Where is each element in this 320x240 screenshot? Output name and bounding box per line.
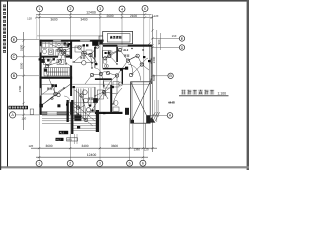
svg-text:AL2: AL2 bbox=[123, 49, 129, 52]
grid line axis 5 bbox=[129, 118, 131, 160]
axis bubble A bbox=[10, 112, 16, 118]
kitchen extra hatch lines bbox=[42, 42, 70, 56]
dark block at y68 wall end bbox=[125, 67, 128, 70]
big door arc living room bbox=[128, 64, 141, 81]
distribution box symbol bbox=[92, 41, 98, 45]
svg-text:3: 3 bbox=[99, 7, 101, 11]
lamp symbols bbox=[45, 45, 143, 97]
left dimension line bbox=[23, 32, 25, 130]
leader to bubble D right bbox=[152, 47, 180, 49]
drawing frame left line bbox=[7, 1, 8, 166]
bedroom dark socket box bbox=[39, 104, 43, 108]
entry circle extra bbox=[76, 106, 79, 109]
exterior top wall left section bbox=[40, 40, 104, 42]
window in bottom wall bbox=[47, 112, 57, 115]
svg-text:3400: 3400 bbox=[81, 144, 88, 148]
staircase treads bbox=[48, 68, 69, 76]
bedroom dresser dots bbox=[51, 84, 53, 87]
right dimension line a bbox=[152, 14, 154, 152]
svg-text:AP1: AP1 bbox=[67, 139, 72, 142]
top dimension ticks bbox=[35, 13, 153, 18]
hall floor line 2 bbox=[72, 86, 95, 88]
sheet top border bbox=[0, 0, 249, 2]
entry outer wall right bbox=[96, 110, 99, 132]
sheet bottom border bbox=[0, 166, 249, 168]
axis bubble 5 bbox=[127, 160, 133, 166]
left binding strip stamp blocks bbox=[3, 5, 6, 53]
interior wall vertical x95 upper bbox=[94, 47, 96, 58]
bay porch outer rect bbox=[103, 31, 133, 43]
window in left wall lower bbox=[40, 88, 42, 96]
axis bubble 6 bbox=[142, 6, 148, 12]
leader to bubble E right bbox=[152, 38, 180, 40]
bottom segment dimension line bbox=[31, 147, 157, 149]
entry terrace step lines bbox=[42, 116, 99, 131]
title underline bbox=[179, 94, 229, 97]
grid line axis 2 bbox=[69, 12, 71, 161]
axis bubble 2 bbox=[67, 160, 73, 166]
svg-text:120: 120 bbox=[144, 148, 149, 152]
exterior bottom wall right section bbox=[95, 112, 123, 114]
wire runs bbox=[46, 43, 149, 120]
interior wall vertical x111 bbox=[110, 85, 112, 113]
bath extra dark marks bbox=[64, 43, 67, 45]
entry diagonal wire 1 bbox=[73, 103, 95, 121]
svg-text:3400: 3400 bbox=[80, 18, 87, 22]
svg-text:3600: 3600 bbox=[111, 144, 118, 148]
axis bubble B bbox=[11, 73, 17, 79]
bedroom bed bottom-left bbox=[42, 85, 55, 95]
svg-text:1: 1 bbox=[38, 162, 40, 166]
interior wall below stairs bbox=[40, 77, 73, 79]
staircase arrow bbox=[46, 71, 68, 73]
bottom overall dimension line bbox=[36, 156, 148, 158]
svg-text:C: C bbox=[13, 55, 16, 59]
axis bubble E bbox=[179, 36, 184, 41]
svg-text:1360: 1360 bbox=[134, 148, 141, 152]
terrace diagonal 1 bbox=[131, 82, 151, 123]
exterior bottom wall left section line1 bbox=[40, 112, 70, 113]
sheet right border bbox=[247, 0, 249, 170]
dim extension below entry bbox=[69, 134, 71, 146]
right dimension ticks bbox=[151, 16, 153, 149]
right dimension line d bbox=[157, 100, 159, 117]
interior wall vertical x122 segment bbox=[121, 69, 123, 84]
bay porch inner rect bbox=[107, 34, 130, 42]
dining table mid room bbox=[75, 46, 92, 54]
axis bubble 4 bbox=[119, 6, 125, 12]
switch label box AL2 bbox=[56, 138, 64, 141]
switch boxes along walls bbox=[39, 42, 151, 115]
top segment dimension line bbox=[36, 16, 152, 18]
dim extension below terrace right bbox=[145, 123, 147, 148]
entry dark marks bbox=[89, 105, 91, 107]
leader to bubble B bbox=[17, 75, 39, 77]
hall fixtures mid bbox=[44, 59, 65, 65]
door arc hall bbox=[65, 59, 72, 66]
hall dark cluster low bbox=[74, 115, 81, 122]
axis bubble 6 bbox=[140, 160, 146, 166]
svg-text:6: 6 bbox=[142, 162, 144, 166]
door leaf at bath wall bbox=[65, 49, 67, 57]
svg-text:AL1: AL1 bbox=[60, 132, 65, 135]
svg-text:1:100: 1:100 bbox=[218, 92, 227, 96]
hall riser circles bbox=[83, 90, 88, 95]
entry circle symbol bbox=[84, 118, 88, 122]
staircase landing dark box bbox=[44, 69, 47, 72]
interior wall vertical x95 lower bbox=[94, 87, 96, 112]
right dimension line c bbox=[160, 33, 162, 50]
svg-text:2000: 2000 bbox=[20, 62, 24, 69]
door gap in axis2 wall bbox=[70, 59, 72, 66]
grid line axis 6 bbox=[143, 12, 145, 161]
bottom dimension ticks bbox=[38, 147, 144, 158]
left room label black box bbox=[9, 106, 29, 110]
title text 一层配电平面 (vector glyphs) bbox=[181, 90, 186, 95]
entry side wall left bbox=[67, 100, 69, 122]
svg-text:2: 2 bbox=[69, 7, 71, 11]
interior wall vertical axis2 bbox=[70, 41, 72, 115]
svg-text:12400: 12400 bbox=[86, 11, 96, 15]
bay porch label text (vector glyphs) bbox=[110, 36, 113, 39]
wall stub left of bay bbox=[99, 36, 103, 45]
window gap in right top wall bbox=[117, 45, 127, 47]
dining pendant circle bbox=[82, 61, 86, 65]
svg-text:2300: 2300 bbox=[152, 56, 156, 63]
extra wire arcs bbox=[41, 44, 148, 120]
wire junction dots bbox=[43, 48, 144, 115]
interior wall vertical x117 bbox=[116, 47, 118, 62]
axis bubble B bbox=[168, 73, 173, 78]
grid line axis 3 bbox=[99, 12, 101, 161]
hall cross lines bbox=[66, 102, 95, 104]
svg-text:D: D bbox=[181, 46, 184, 50]
door arc right room bbox=[95, 68, 101, 74]
svg-text:12400: 12400 bbox=[87, 153, 97, 157]
svg-text:6900: 6900 bbox=[152, 74, 156, 81]
kitchen counter top-left bbox=[42, 42, 68, 47]
terrace left inner edge bbox=[131, 82, 133, 123]
svg-text:AL2: AL2 bbox=[56, 139, 61, 142]
window X in right wall bbox=[150, 58, 152, 84]
entry side wall right bbox=[71, 100, 73, 134]
entry vertical wires bbox=[88, 88, 90, 106]
svg-text:900: 900 bbox=[157, 39, 161, 44]
dim extension below terrace left bbox=[132, 123, 134, 148]
window in top wall between axis2-3 bbox=[80, 40, 90, 42]
bedroom circle 2 bbox=[57, 93, 60, 96]
hall dark cluster right bbox=[93, 98, 98, 103]
switch label box AP bbox=[67, 138, 78, 141]
leader to bubble A left bbox=[16, 114, 39, 116]
svg-text:120: 120 bbox=[22, 117, 27, 121]
wc left wall line bbox=[102, 47, 104, 68]
door diagonal in right top wall bbox=[146, 43, 151, 47]
axis bubble 2 bbox=[67, 6, 73, 12]
svg-text:4448: 4448 bbox=[168, 101, 175, 105]
dark fixture blobs left bbox=[40, 59, 45, 63]
axis bubble E bbox=[11, 37, 17, 43]
svg-text:5: 5 bbox=[129, 162, 131, 166]
switch label box AL1 bbox=[59, 131, 68, 134]
cluster left of bay bbox=[99, 41, 102, 45]
hall wire riser lines bbox=[74, 89, 83, 120]
door gap 2 in axis2 wall bbox=[70, 96, 72, 102]
exterior steps dark triangle bbox=[148, 117, 156, 122]
bedroom lamp bbox=[54, 92, 58, 96]
leader to bubble E bbox=[17, 39, 39, 41]
svg-text:1800: 1800 bbox=[20, 44, 24, 51]
axis bubble A bbox=[167, 113, 173, 119]
staircase box bbox=[44, 68, 71, 76]
leader to bubble A right bbox=[147, 114, 167, 116]
grid line axis 1 bbox=[39, 12, 41, 161]
wall face extension line left bbox=[36, 15, 38, 40]
svg-text:4: 4 bbox=[121, 7, 123, 11]
interior wall horizontal bath bottom bbox=[40, 56, 71, 58]
terrace diagonal 2 bbox=[131, 82, 151, 123]
leader to bubble B right bbox=[152, 75, 168, 77]
bedroom small target circle bbox=[51, 97, 53, 99]
svg-text:1: 1 bbox=[38, 7, 40, 11]
svg-text:2600: 2600 bbox=[106, 14, 113, 18]
top overall dimension line bbox=[36, 13, 152, 15]
bedroom wire diagonal bbox=[40, 84, 70, 106]
entry diagonal wire 2 bbox=[73, 110, 93, 126]
leader to bubble C bbox=[17, 56, 39, 58]
axis bubble 1 bbox=[37, 6, 43, 12]
hall floor line bbox=[72, 83, 150, 85]
right dimension line b bbox=[156, 30, 158, 122]
exterior bottom wall left section line2 bbox=[40, 114, 70, 115]
exterior left wall bbox=[40, 40, 42, 115]
svg-text:3600: 3600 bbox=[45, 144, 52, 148]
wc fixtures bbox=[43, 49, 53, 54]
svg-text:120: 120 bbox=[27, 17, 32, 21]
exterior top wall right section bbox=[103, 45, 152, 47]
svg-text:120: 120 bbox=[154, 14, 159, 18]
svg-text:3600: 3600 bbox=[50, 18, 57, 22]
exterior steps hatch bottom right bbox=[151, 112, 160, 121]
axis bubble D bbox=[179, 45, 184, 50]
dark dot pair mid room bbox=[83, 44, 85, 46]
svg-text:2100: 2100 bbox=[130, 14, 137, 18]
axis bubble C bbox=[11, 54, 17, 60]
door arc bedroom bbox=[64, 96, 70, 102]
svg-text:3: 3 bbox=[99, 162, 101, 166]
ceiling fan symbol bbox=[82, 51, 87, 56]
door gap in bath wall bbox=[58, 56, 66, 58]
dark post terrace bottom right bbox=[146, 116, 150, 124]
interior wall horizontal y78 stub right of x95 bbox=[95, 78, 112, 80]
svg-text:150: 150 bbox=[172, 34, 177, 38]
wc room fixtures box bbox=[98, 51, 120, 112]
terrace box bbox=[131, 82, 151, 123]
bedroom wire diagonal 2 bbox=[40, 84, 56, 96]
axis bubble 1 bbox=[36, 160, 42, 166]
svg-text:2700: 2700 bbox=[18, 85, 22, 92]
eave overhang line above top wall bbox=[37, 35, 103, 37]
dark post terrace bottom left bbox=[131, 120, 134, 123]
axis bubble 3 bbox=[97, 6, 103, 12]
exterior right wall double line bbox=[150, 45, 152, 85]
wall face extension line right bbox=[149, 15, 151, 45]
door arc at bath wall bbox=[58, 49, 66, 57]
window in top wall between axis1-2 bbox=[53, 40, 61, 42]
room label smudges (vector) bbox=[56, 49, 58, 51]
dark dots upper right room bbox=[105, 52, 107, 54]
left dimension ticks bbox=[23, 40, 25, 116]
sheet left border bbox=[0, 0, 1, 170]
sofa group right room bbox=[103, 81, 122, 88]
grid line axis 4 bbox=[121, 12, 123, 50]
svg-text:120: 120 bbox=[28, 144, 33, 148]
window in left wall upper bbox=[40, 46, 42, 53]
terrace mid vertical bbox=[143, 82, 145, 123]
svg-text:2: 2 bbox=[69, 162, 71, 166]
additional wiring arcs bbox=[44, 53, 118, 120]
interior wall horizontal y68 right bbox=[103, 68, 127, 70]
svg-text:6: 6 bbox=[144, 7, 146, 11]
wc inner dot bbox=[106, 65, 107, 66]
small room dark blobs left of terrace bbox=[125, 108, 129, 115]
axis bubble 3 bbox=[97, 160, 103, 166]
